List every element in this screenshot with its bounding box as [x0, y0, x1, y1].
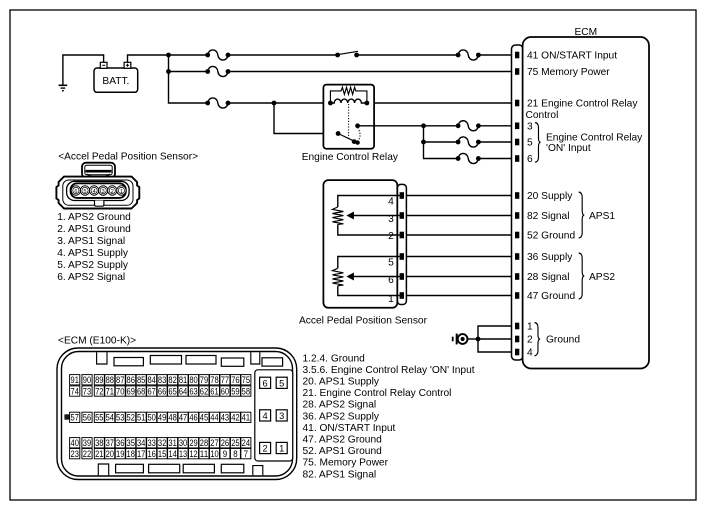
sensor connector face: body [56, 177, 139, 209]
fuse F2 [456, 50, 481, 60]
svg-text:86: 86 [127, 375, 135, 385]
pin label 75 Memory Power [527, 67, 610, 78]
label Engine Control Relay 'ON' Input [546, 132, 643, 154]
svg-text:40: 40 [71, 438, 79, 448]
ECM connector pin squares [515, 52, 519, 356]
wire B+ to fuse F1 [169, 54, 208, 56]
svg-text:82 Signal: 82 Signal [527, 211, 569, 222]
relay resistor R1 (parallel with coil) [330, 87, 367, 103]
wire relay coil to ECM pin 21 [367, 102, 515, 104]
wire battery positive to node B+ [128, 55, 169, 63]
wire node R to fuse F5 [424, 125, 459, 127]
sensor pin list line 6 [57, 272, 125, 283]
svg-text:18: 18 [127, 449, 135, 459]
ECM connector face terminal row 1 (pins 91-75) [70, 375, 251, 385]
svg-text:41 ON/START Input: 41 ON/START Input [527, 51, 617, 62]
accel pedal position sensor connector strip [397, 184, 406, 304]
pin number 6 [527, 154, 533, 165]
svg-text:8: 8 [233, 449, 237, 459]
svg-text:59: 59 [231, 386, 239, 396]
junction on memory power wire [166, 69, 171, 74]
sensor pin list line 5 [57, 260, 129, 271]
svg-text:36: 36 [116, 438, 124, 448]
svg-text:6. APS2 Signal: 6. APS2 Signal [57, 272, 125, 283]
sensor pin list line 1 [57, 212, 131, 223]
sensor pin list line 2 [57, 224, 131, 235]
svg-text:66: 66 [158, 386, 166, 396]
svg-text:4. APS1 Supply: 4. APS1 Supply [57, 248, 129, 259]
sensor pin number 2 [388, 231, 394, 242]
svg-text:1: 1 [279, 444, 284, 454]
pin label 36 Supply [527, 252, 573, 263]
svg-text:70: 70 [116, 386, 124, 396]
svg-text:71: 71 [106, 386, 114, 396]
svg-text:83: 83 [158, 375, 166, 385]
pin label 82 Signal [527, 211, 569, 222]
sensor pin list line 4 [57, 248, 129, 259]
relay armature dotted link [348, 104, 350, 140]
svg-text:Control: Control [526, 110, 559, 121]
svg-text:79: 79 [200, 375, 208, 385]
wire battery negative to ground [63, 55, 104, 85]
svg-text:2: 2 [263, 444, 268, 454]
ECM pin function list line 6 [303, 411, 380, 422]
label APS1 [589, 211, 615, 222]
sensor pin number 1 [388, 294, 394, 305]
svg-text:41: 41 [242, 413, 250, 423]
svg-text:2: 2 [111, 189, 114, 195]
svg-text:1: 1 [388, 294, 394, 305]
svg-text:11: 11 [200, 449, 208, 459]
svg-text:28. APS2 Signal: 28. APS2 Signal [303, 400, 377, 411]
ECM box [523, 37, 649, 369]
svg-text:Engine Control Relay: Engine Control Relay [546, 132, 643, 143]
svg-text:2: 2 [388, 231, 394, 242]
svg-text:34: 34 [137, 438, 145, 448]
ECM pin function list line 1 [303, 353, 366, 364]
wire fuse F3 to ECM pin 75 (Memory Power) [228, 71, 515, 73]
svg-text:47 Ground: 47 Ground [527, 291, 575, 302]
svg-text:88: 88 [106, 375, 114, 385]
brace pins 3 5 6 [535, 123, 541, 163]
ECM pin function list line 8 [303, 435, 383, 446]
ECM connector face terminal row 4 (pins 40-24) [70, 438, 251, 448]
fuse F6 [456, 137, 481, 147]
svg-text:21: 21 [95, 449, 103, 459]
svg-text:15: 15 [158, 449, 166, 459]
svg-text:29: 29 [189, 438, 197, 448]
svg-text:47: 47 [179, 413, 187, 423]
fuse F5 [456, 121, 481, 131]
svg-text:3: 3 [102, 189, 105, 195]
label Ground [546, 335, 580, 346]
svg-text:2: 2 [527, 335, 533, 346]
sensor pin list line 3 [57, 236, 125, 247]
svg-text:4: 4 [263, 411, 268, 421]
wire node R to fuse F6 [424, 141, 459, 143]
svg-text:37: 37 [106, 438, 114, 448]
svg-text:82: 82 [168, 375, 176, 385]
svg-text:6: 6 [527, 154, 533, 165]
chassis ground symbol [453, 334, 468, 345]
svg-text:50: 50 [147, 413, 155, 423]
engine control relay box [323, 85, 374, 149]
svg-text:43: 43 [221, 413, 229, 423]
svg-text:51: 51 [137, 413, 145, 423]
svg-text:25: 25 [231, 438, 239, 448]
svg-text:77: 77 [221, 375, 229, 385]
svg-text:Ground: Ground [546, 335, 580, 346]
svg-text:7: 7 [244, 449, 248, 459]
svg-text:<Accel Pedal Position Sensor>: <Accel Pedal Position Sensor> [58, 152, 198, 163]
ignition switch SW1 (open) [335, 51, 359, 57]
svg-text:4: 4 [93, 189, 96, 195]
svg-text:1: 1 [527, 322, 533, 333]
ECM connector face pin 1 [276, 442, 287, 453]
svg-text:<ECM (E100-K)>: <ECM (E100-K)> [58, 335, 136, 346]
svg-text:91: 91 [71, 375, 79, 385]
pin label 52 Ground [527, 231, 575, 242]
svg-text:64: 64 [179, 386, 187, 396]
sensor connector face: pin cavity rings [67, 181, 130, 200]
brace APS2 [579, 253, 585, 299]
svg-text:54: 54 [106, 413, 114, 423]
svg-text:5: 5 [279, 378, 284, 388]
wire sensor to ECM pin 52 [406, 234, 515, 236]
relay label [302, 152, 399, 163]
svg-text:68: 68 [137, 386, 145, 396]
svg-text:'ON' Input: 'ON' Input [546, 143, 591, 154]
svg-text:82. APS1 Signal: 82. APS1 Signal [303, 469, 377, 480]
pin number 5 [527, 138, 533, 149]
svg-text:49: 49 [158, 413, 166, 423]
ECM connector face outline [57, 348, 297, 480]
svg-text:3: 3 [527, 122, 533, 133]
pin number 1 [527, 322, 533, 333]
pin label 20 Supply [527, 191, 573, 202]
ECM pin function list line 11 [303, 469, 377, 480]
svg-text:38: 38 [95, 438, 103, 448]
svg-text:21 Engine Control Relay: 21 Engine Control Relay [527, 99, 638, 110]
wire fuse F1 to ignition switch [228, 54, 338, 56]
svg-text:84: 84 [147, 375, 155, 385]
pin number 3 [527, 122, 533, 133]
ECM pin function list line 2 [303, 365, 475, 376]
node R junction column [421, 123, 458, 158]
accel pedal position sensor box [323, 180, 397, 308]
sensor pin number 6 [388, 275, 394, 286]
pin number 4 [527, 348, 533, 359]
svg-text:23: 23 [71, 449, 79, 459]
svg-text:81: 81 [179, 375, 187, 385]
svg-text:20: 20 [106, 449, 114, 459]
wire fuse F7 to ECM pin 6 [478, 158, 515, 160]
wire fuse F5 to ECM pin 3 [478, 125, 515, 127]
svg-text:12: 12 [189, 449, 197, 459]
svg-text:73: 73 [83, 386, 91, 396]
svg-text:33: 33 [147, 438, 155, 448]
svg-text:6: 6 [74, 189, 77, 195]
svg-text:53: 53 [116, 413, 124, 423]
svg-text:62: 62 [200, 386, 208, 396]
svg-text:45: 45 [200, 413, 208, 423]
svg-text:56: 56 [83, 413, 91, 423]
sensor connector pin squares [400, 192, 404, 299]
svg-text:80: 80 [189, 375, 197, 385]
sensor pin number 3 [388, 214, 394, 225]
wire sensor to ECM pin 82 [406, 215, 515, 217]
potentiometer APS1 (pins 4,3,2) [332, 196, 399, 236]
wire fuse F6 to ECM pin 5 [478, 141, 515, 143]
svg-text:3.5.6. Engine Control Relay 'O: 3.5.6. Engine Control Relay 'ON' Input [303, 365, 475, 376]
svg-text:4: 4 [388, 197, 394, 208]
sensor connector face: pins 6 5 4 3 2 1 [71, 186, 126, 195]
svg-text:67: 67 [147, 386, 155, 396]
svg-text:61: 61 [210, 386, 218, 396]
svg-text:35: 35 [127, 438, 135, 448]
svg-text:APS2: APS2 [589, 272, 615, 283]
wire node G to ECM pins 1 and 4 [478, 326, 515, 352]
svg-text:36 Supply: 36 Supply [527, 252, 573, 263]
svg-text:22: 22 [83, 449, 91, 459]
svg-text:52 Ground: 52 Ground [527, 231, 575, 242]
svg-text:27: 27 [210, 438, 218, 448]
wire chassis ground to node G [468, 338, 479, 340]
svg-text:55: 55 [95, 413, 103, 423]
svg-text:APS1: APS1 [589, 211, 615, 222]
brace pins 1 2 4 [535, 323, 541, 356]
fuse F3 [205, 66, 230, 76]
wire sensor to ECM pin 47 [406, 295, 515, 297]
ECM pin function list line 7 [303, 423, 396, 434]
svg-text:76: 76 [231, 375, 239, 385]
svg-text:87: 87 [116, 375, 124, 385]
svg-text:47. APS2 Ground: 47. APS2 Ground [303, 435, 383, 446]
ECM connector face row 3 left key [64, 414, 69, 419]
pin label 28 Signal [527, 272, 569, 283]
svg-text:28: 28 [200, 438, 208, 448]
svg-text:89: 89 [95, 375, 103, 385]
svg-text:90: 90 [83, 375, 91, 385]
sensor pin number 4 [388, 197, 394, 208]
pin number 2 [527, 335, 533, 346]
fuse F1 (fusible link) [205, 50, 230, 60]
svg-text:85: 85 [137, 375, 145, 385]
svg-text:31: 31 [168, 438, 176, 448]
svg-text:41. ON/START Input: 41. ON/START Input [303, 423, 396, 434]
ECM title [575, 27, 598, 38]
potentiometer APS2 (pins 5,6,1) [332, 257, 399, 296]
svg-text:65: 65 [168, 386, 176, 396]
svg-text:9: 9 [223, 449, 227, 459]
svg-text:6: 6 [263, 378, 268, 388]
wire fuse F2 to ECM pin 41 [478, 54, 515, 56]
svg-text:14: 14 [168, 449, 176, 459]
svg-text:2. APS1 Ground: 2. APS1 Ground [57, 224, 131, 235]
ECM connector face pin 4 [260, 410, 271, 421]
svg-text:5: 5 [388, 258, 394, 269]
svg-text:48: 48 [168, 413, 176, 423]
ECM pin function list line 10 [303, 458, 389, 469]
svg-text:36. APS2 Supply: 36. APS2 Supply [303, 411, 380, 422]
svg-text:4: 4 [527, 348, 533, 359]
svg-text:17: 17 [137, 449, 145, 459]
svg-text:3: 3 [279, 411, 284, 421]
battery BATT. [94, 62, 138, 92]
wire fuse F4 to relay coil [228, 102, 330, 104]
svg-text:42: 42 [231, 413, 239, 423]
wire relay output to node R [358, 125, 424, 127]
wire B+ bus down to wires 75 and 21 [169, 55, 208, 103]
ECM connector face pin 5 [276, 377, 287, 388]
svg-text:63: 63 [189, 386, 197, 396]
svg-text:46: 46 [189, 413, 197, 423]
svg-text:13: 13 [179, 449, 187, 459]
sensor pin number 5 [388, 258, 394, 269]
svg-text:BATT.: BATT. [102, 76, 129, 87]
svg-text:44: 44 [210, 413, 218, 423]
svg-text:60: 60 [221, 386, 229, 396]
ECM pin function list line 4 [303, 388, 452, 399]
wire junction down to relay switch contact [274, 103, 338, 134]
svg-text:20. APS1 Supply: 20. APS1 Supply [303, 377, 380, 388]
wire junction to fuse F3 [169, 71, 208, 73]
ECM pin function list line 3 [303, 377, 380, 388]
ECM connector face pin 1-6 block [255, 370, 293, 461]
svg-text:19: 19 [116, 449, 124, 459]
ECM connector face terminal row 5 (pins 23-7) [70, 449, 251, 459]
svg-text:69: 69 [127, 386, 135, 396]
node G junction [476, 337, 481, 342]
svg-text:1. APS2 Ground: 1. APS2 Ground [57, 212, 131, 223]
pin label 21 Engine Control Relay Control [526, 99, 639, 122]
svg-text:1.2.4. Ground: 1.2.4. Ground [303, 353, 366, 364]
ground (battery negative terminal ground) [59, 85, 68, 90]
svg-text:10: 10 [210, 449, 218, 459]
svg-text:52. APS1 Ground: 52. APS1 Ground [303, 446, 383, 457]
node B+ junction [166, 53, 171, 58]
fuse F7 [456, 153, 481, 163]
brace APS1 [579, 192, 585, 238]
svg-text:3. APS1 Signal: 3. APS1 Signal [57, 236, 125, 247]
svg-text:39: 39 [83, 438, 91, 448]
svg-text:72: 72 [95, 386, 103, 396]
svg-text:5. APS2 Supply: 5. APS2 Supply [57, 260, 129, 271]
title Accel Pedal Position Sensor [58, 152, 198, 163]
svg-text:Accel Pedal Position Sensor: Accel Pedal Position Sensor [299, 315, 428, 326]
svg-text:30: 30 [179, 438, 187, 448]
title ECM (E100-K) [58, 335, 136, 346]
wire sensor to ECM pin 20 [406, 195, 515, 197]
svg-text:78: 78 [210, 375, 218, 385]
sensor connector face: latch tab [82, 163, 115, 178]
ECM connector face bottom key slots [98, 464, 262, 475]
svg-text:58: 58 [242, 386, 250, 396]
svg-text:28 Signal: 28 Signal [527, 272, 569, 283]
svg-text:32: 32 [158, 438, 166, 448]
fuse F4 [205, 98, 230, 108]
sensor connector face: bottom notch [95, 201, 104, 207]
pin label 41 ON/START Input [527, 51, 617, 62]
svg-text:24: 24 [242, 438, 250, 448]
ECM connector face terminal row 3 (pins 57-41) [70, 412, 251, 422]
svg-text:20 Supply: 20 Supply [527, 191, 573, 202]
ECM pin function list line 5 [303, 400, 377, 411]
ECM connector face pin 2 [260, 442, 271, 453]
svg-text:75 Memory Power: 75 Memory Power [527, 67, 610, 78]
svg-text:52: 52 [127, 413, 135, 423]
svg-text:16: 16 [147, 449, 155, 459]
svg-text:26: 26 [221, 438, 229, 448]
svg-text:75. Memory Power: 75. Memory Power [303, 458, 389, 469]
svg-text:Engine Control Relay: Engine Control Relay [302, 152, 399, 163]
sensor box label [299, 315, 428, 326]
wire ignition switch to fuse F2 [357, 54, 459, 56]
ECM connector face terminal row 2 (pins 74-58) [70, 386, 251, 396]
ECM connector face top key slots [97, 352, 283, 366]
svg-text:75: 75 [242, 375, 250, 385]
wire node G to ECM pin 2 [478, 338, 515, 340]
label APS2 [589, 272, 615, 283]
svg-text:1: 1 [120, 189, 123, 195]
relay coil L1 [328, 99, 369, 105]
svg-text:74: 74 [71, 386, 79, 396]
svg-text:6: 6 [388, 275, 394, 286]
ECM connector strip [512, 45, 524, 360]
svg-text:5: 5 [83, 189, 86, 195]
ECM connector face pin 6 [260, 377, 271, 388]
svg-text:5: 5 [527, 138, 533, 149]
pin label 47 Ground [527, 291, 575, 302]
svg-text:57: 57 [71, 413, 79, 423]
ECM pin function list line 9 [303, 446, 383, 457]
svg-text:3: 3 [388, 214, 394, 225]
wire sensor to ECM pin 36 [406, 256, 515, 258]
node relay contact feed junction [272, 101, 277, 106]
svg-text:21. Engine Control Relay Contr: 21. Engine Control Relay Control [303, 388, 452, 399]
relay switch contacts [336, 123, 360, 144]
wire sensor to ECM pin 28 [406, 276, 515, 278]
ECM connector face pin 3 [276, 410, 287, 421]
